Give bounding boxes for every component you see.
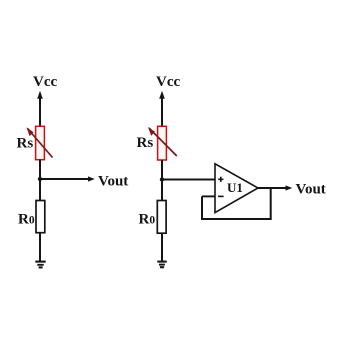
- feedback loop wire: [202, 188, 271, 219]
- node junction dot (right): [160, 177, 164, 181]
- wire R0 to ground (left): [39, 233, 41, 261]
- wire node to Vout (left): [40, 178, 89, 180]
- wire op-amp output to Vout: [257, 187, 286, 189]
- op-amp U1 triangle: [215, 164, 258, 213]
- wire Vcc to Rs (left): [39, 95, 41, 127]
- svg-text:Vout: Vout: [296, 182, 326, 198]
- thermistor Rs diagonal arrow (right): [149, 128, 177, 156]
- power arrow up (right): [159, 91, 165, 99]
- wire node to op-amp + input: [162, 179, 215, 181]
- svg-text:Rs: Rs: [137, 135, 154, 151]
- thermistor Rs body (left): [36, 126, 45, 159]
- arrowhead to Vout (right): [286, 185, 293, 190]
- arrowhead to Vout (left): [88, 176, 95, 181]
- resistor R0 body (left): [36, 201, 45, 233]
- svg-text:R0: R0: [139, 212, 156, 228]
- ground symbol (right): [157, 262, 166, 268]
- op-amp - input marker: [218, 195, 224, 197]
- svg-text:U1: U1: [227, 180, 243, 195]
- wire Vcc to Rs (right): [161, 95, 163, 127]
- thermistor Rs diagonal arrow (left): [28, 129, 53, 158]
- svg-text:Rs: Rs: [17, 136, 34, 152]
- svg-text:Vcc: Vcc: [33, 74, 57, 90]
- svg-text:R0: R0: [18, 212, 35, 228]
- wire R0 to ground (right): [161, 233, 163, 261]
- wire Rs to node (right): [161, 160, 163, 201]
- op-amp + input marker: [218, 177, 223, 182]
- power arrow up (left): [37, 91, 43, 99]
- wire feedback to - input: [202, 195, 215, 197]
- node junction dot (left): [38, 177, 42, 181]
- ground symbol (left): [35, 262, 45, 268]
- thermistor Rs body (right): [158, 126, 167, 160]
- svg-text:Vcc: Vcc: [156, 74, 180, 90]
- svg-text:Vout: Vout: [98, 174, 128, 190]
- resistor R0 body (right): [157, 201, 166, 234]
- wire Rs to node (left): [39, 160, 41, 201]
